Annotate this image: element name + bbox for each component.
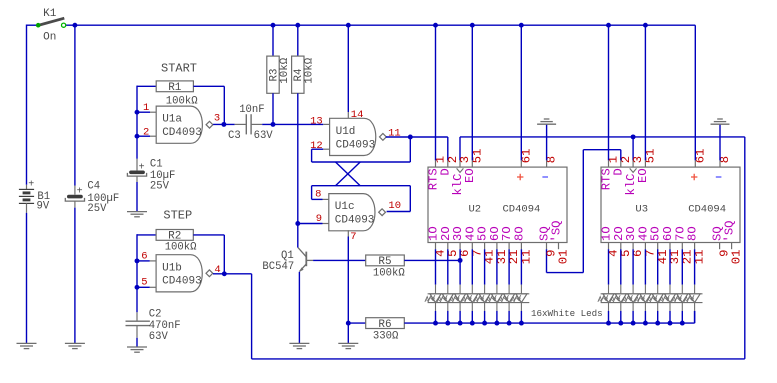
LED group 1 bars [428,294,530,303]
node LED rail 9 [606,321,611,326]
resistor R4 10k [292,56,316,93]
pin 1 [143,102,149,114]
wire U3 pin16 plus [694,25,696,167]
node rail U2 pin16 [519,23,524,28]
node LED rail 1 [433,321,438,326]
svg-text:+: + [77,186,83,197]
node R3 junction [271,122,276,127]
node LED rail 11 [631,321,636,326]
resistor R1 [156,81,198,108]
node U1b pin6 [135,258,140,263]
node rail U2 pin15 [470,23,475,28]
node LED rail 13 [655,321,660,326]
svg-text:k: k [451,188,465,195]
svg-text:10nF: 10nF [239,104,264,116]
node rail R3 [271,23,276,28]
svg-text:3: 3 [214,113,220,125]
svg-text:100kΩ: 100kΩ [373,267,405,279]
svg-text:T: T [599,176,613,183]
svg-text:R: R [599,183,613,190]
svg-text:R6: R6 [378,319,391,331]
node U1d out [408,135,413,140]
wire U1c pin9 stub [298,223,329,225]
node LED rail 5 [482,321,487,326]
svg-text:1: 1 [143,102,149,114]
svg-text:14: 14 [351,109,364,121]
svg-text:CD4093: CD4093 [336,139,376,151]
wire U3 QSp stub [731,243,733,250]
svg-text:R5: R5 [378,256,391,268]
node rail R4 [295,23,300,28]
LED D11 [623,243,639,324]
LED D12 [635,243,651,324]
svg-text:U1b: U1b [162,262,182,274]
svg-text:C1: C1 [150,158,163,170]
wire R4 top [297,25,299,56]
svg-text:9V: 9V [37,201,50,213]
svg-text:U1c: U1c [335,201,355,213]
LED D16 [684,243,700,324]
wire R1 left rail [137,86,156,159]
LED D14 [659,243,675,324]
svg-text:S: S [723,228,737,235]
wire LED cathode rail [404,311,694,323]
node R6 left [346,321,351,326]
node LED rail 8 [519,321,524,326]
svg-text:Q: Q [723,220,737,227]
wire U1a pin1 stub [137,111,156,113]
svg-text:8: 8 [686,234,700,241]
svg-text:8: 8 [315,188,321,200]
op-amp U1d CD4093 [330,118,387,155]
node U1b pin5 [135,285,140,290]
wire U1d out [386,136,448,138]
svg-text:+: + [139,162,145,173]
wire R2 feedback [193,235,224,274]
LED D5 [474,243,490,324]
IC U3 CD4094 [601,167,740,242]
svg-text:O: O [686,226,700,233]
svg-text:CD4094: CD4094 [503,203,541,215]
svg-text:E: E [636,176,650,183]
node LED rail 7 [507,321,512,326]
capacitor C2 470nF 63V [126,309,181,343]
wire top supply rail [66,24,696,26]
IC U2 CD4094 [428,167,567,242]
pin 7 [350,231,356,243]
wire U2 pin15 OE [471,25,473,167]
svg-text:0: 0 [730,257,744,264]
node rail U3 pin1 [606,23,611,28]
node LED rail 10 [618,321,623,326]
node C4 branch [72,23,77,28]
node LED rail 15 [680,321,685,326]
label STEP [163,209,192,223]
svg-text:U2: U2 [469,203,482,215]
LED D6 [486,243,502,324]
svg-text:CD4093: CD4093 [162,276,202,288]
svg-text:CD4093: CD4093 [335,215,375,227]
svg-text:K1: K1 [43,8,57,20]
svg-text:C3: C3 [228,130,241,142]
svg-text:100kΩ: 100kΩ [165,242,197,254]
wire U2 pin1 STR [435,25,437,167]
svg-text:63V: 63V [149,331,169,343]
wire Q1 base [313,259,366,261]
svg-text:U3: U3 [635,203,648,215]
node R5 O3 [458,258,463,263]
pin 9 [316,213,322,225]
node U3 clk tap [631,134,636,139]
node rail U3 pin15 [643,23,648,28]
label START [161,61,197,75]
svg-text:k: k [624,188,638,195]
node LED rail 12 [643,321,648,326]
wire U2 pin16 plus [520,25,522,167]
pin 13 [310,116,323,128]
svg-text:O: O [512,226,526,233]
node U1a pin2 [135,134,140,139]
svg-text:STEP: STEP [163,209,192,223]
svg-text:Q: Q [550,220,564,227]
wire U1b out [213,273,252,275]
pin 5 [141,277,147,289]
svg-text:1: 1 [730,250,744,257]
svg-text:0: 0 [557,257,571,264]
pin 2 [143,127,149,139]
svg-text:6: 6 [141,251,147,263]
ground Q1 [289,343,309,348]
node LED rail 6 [494,321,499,326]
node C3 left [221,122,226,127]
wire U1a pin2 stub [137,135,156,137]
svg-text:5: 5 [141,277,147,289]
svg-text:O: O [463,168,477,175]
capacitor C3 10nF 63V [228,104,273,142]
wire clock loop [252,137,745,359]
pin 8 [315,188,321,200]
svg-text:25V: 25V [87,203,107,215]
svg-text:CD4094: CD4094 [688,203,726,215]
wire left battery rail [27,25,37,185]
wire C1 to ground [136,182,138,212]
wire C4 drop [74,25,76,185]
op-amp U1c CD4093 [329,194,386,231]
pin labels U2 bottom [427,220,571,264]
svg-text:BC547: BC547 [262,261,294,273]
svg-text:7: 7 [350,231,356,243]
wire U2 pin8 minus [546,124,548,167]
ground C1 [127,212,147,217]
node rail U1d pin14 [346,23,351,28]
svg-text:8: 8 [512,234,526,241]
wire U1a out [213,123,235,125]
svg-text:START: START [161,61,197,75]
svg-text:+: + [28,180,34,191]
svg-text:63V: 63V [254,130,274,142]
LED D9 [598,243,614,324]
wire U3 pin8 minus [719,124,721,167]
pin labels U2 top [426,149,558,196]
svg-text:S: S [550,228,564,235]
ground C4 [65,343,85,348]
node LED rail 2 [445,321,450,326]
pin labels U3 bottom [600,220,744,264]
wire U1b pin6 stub [137,260,156,262]
LED group 2 bars [601,294,703,303]
svg-text:On: On [43,32,56,44]
wire C3 to U1d pin13 [262,123,329,125]
resistor R3 10k [267,56,291,93]
pin 11 [388,127,401,139]
pin 12 [310,140,323,152]
node U1b out [222,271,227,276]
ground U2 pin8 [537,119,556,124]
pin 3 [214,113,220,125]
wire R4 to Q1 collector [297,93,299,247]
wire U3 pin15 OE [644,25,646,167]
svg-text:CD4093: CD4093 [162,127,202,139]
svg-text:C4: C4 [87,181,100,193]
node LED rail 14 [668,321,673,326]
pin 10 [388,200,401,212]
wire R3 bottom [272,93,274,124]
LED D13 [647,243,663,324]
label 16x White Leds [531,308,603,319]
LED D4 [462,243,478,324]
node U1c pin9 [295,221,300,226]
battery B1 9V [19,180,50,213]
wire U2 QSp stub [558,243,560,250]
LED D3 [450,243,466,324]
pin 14 [351,109,364,121]
wire latch cross B [312,137,411,186]
switch K1 [36,8,66,43]
svg-text:O: O [636,168,650,175]
wire Q1 emitter to ground [298,272,300,344]
svg-text:330Ω: 330Ω [373,330,399,342]
node rail U2 pin1 [433,23,438,28]
resistor R5 100k [366,255,406,279]
node LED rail 3 [458,321,463,326]
wire R5 to O3 [404,259,460,261]
node U1a pin1 [135,110,140,115]
op-amp U1a CD4093 [156,106,213,143]
LED D2 [437,243,453,324]
LED D10 [610,243,626,324]
pin 6 [141,251,147,263]
svg-text:E: E [463,176,477,183]
svg-text:16xWhite Leds: 16xWhite Leds [531,308,603,319]
svg-text:9: 9 [316,213,322,225]
LED D8 [511,243,527,324]
ground U1c pin7 [338,343,358,348]
pin labels U3 top [599,149,732,196]
ground U3 pin8 [711,119,730,124]
node LED rail 4 [470,321,475,326]
svg-text:25V: 25V [150,181,170,193]
svg-text:U1d: U1d [336,126,356,138]
pin 4 [214,264,220,276]
svg-text:10kΩ: 10kΩ [279,57,291,83]
wire U1d pin14 supply [347,25,349,118]
wire C2 to ground [136,338,138,347]
resistor R6 330 [366,318,405,343]
capacitor C4 100uF 25V [65,181,119,215]
svg-text:13: 13 [310,116,323,128]
wire R6 left [348,322,365,324]
wire U1c pin7 to ground [347,230,349,343]
svg-text:U1a: U1a [162,114,182,126]
svg-text:': ' [723,235,737,242]
svg-text:R: R [426,183,440,190]
capacitor C1 10uF 25V [127,158,175,192]
svg-text:': ' [550,235,564,242]
wire U3 pin3 drop [632,137,634,167]
svg-text:2: 2 [143,127,149,139]
LED D15 [672,243,688,324]
ground B1 [17,343,37,348]
wire U3 QS stub [719,243,721,250]
wire U2 pin2 drop [447,137,449,167]
svg-text:T: T [426,176,440,183]
LED D7 [499,243,515,324]
svg-text:R1: R1 [168,82,182,94]
resistor R2 [156,230,197,254]
wire B1 to ground [26,213,28,344]
ground C2 [127,347,147,352]
wire U1b pin5 stub [137,286,156,288]
wire R3 top [272,25,274,56]
LED D1 [425,243,441,324]
wire C4 to ground [74,208,76,344]
transistor Q1 BC547 [262,248,313,274]
svg-text:10kΩ: 10kΩ [304,57,316,83]
op-amp U1b CD4093 [156,255,213,292]
svg-text:1: 1 [557,250,571,257]
wire R2 left rail [137,234,156,312]
wire QS cascade [547,150,621,273]
wire U3 pin1 STR [608,25,610,167]
wire R1 feedback [193,86,224,124]
wire latch cross A [312,162,411,212]
svg-text:10: 10 [388,200,401,212]
